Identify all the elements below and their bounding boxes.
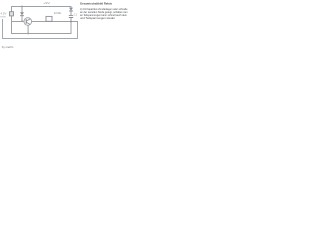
transistor Q1 <box>24 18 32 26</box>
wire left branch vertical <box>11 6 13 33</box>
junction dot emitter / bottom rail <box>27 33 29 35</box>
junction dot mid wire / right branch <box>70 21 72 23</box>
wire mid horizontal left <box>11 21 24 23</box>
diode D1 <box>20 12 24 15</box>
svg-text:Gesamtschaltbild Relais: Gesamtschaltbild Relais <box>80 1 112 5</box>
junction dot diode branch / mid wire <box>21 20 23 22</box>
wire transistor emitter down <box>27 25 29 33</box>
wire top rail <box>11 6 71 8</box>
wire bottom inner rail <box>11 33 72 35</box>
wire mid horizontal right <box>32 21 79 23</box>
svg-text:by merlin: by merlin <box>2 45 14 49</box>
svg-text:und Teilspannungen wieder: und Teilspannungen wieder <box>80 16 115 20</box>
capacitor C1 <box>69 15 74 17</box>
resistor R1 (left branch box) <box>10 12 14 16</box>
svg-text:+9V: +9V <box>43 1 50 5</box>
wire diode branch vertical <box>21 6 23 21</box>
resistor R2 (box on mid wire) <box>46 16 52 21</box>
svg-text:10k: 10k <box>54 11 63 15</box>
wire outer return loop <box>3 19 78 39</box>
wire right branch vertical <box>70 6 72 34</box>
junction dot top rail / diode branch <box>21 6 23 8</box>
svg-text:min: min <box>1 15 7 19</box>
diode D2 (right branch) <box>69 8 73 11</box>
